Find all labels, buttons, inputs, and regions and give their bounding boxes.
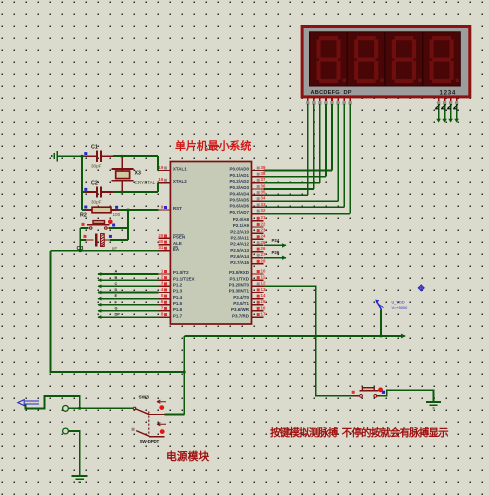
svg-text:28: 28 [261, 258, 266, 263]
svg-text:17: 17 [261, 311, 266, 316]
svg-text:EA: EA [173, 247, 180, 252]
svg-text:R2: R2 [80, 213, 87, 219]
svg-text:P0.3/AD3: P0.3/AD3 [229, 185, 249, 190]
svg-text:单片机最小系统: 单片机最小系统 [175, 138, 251, 152]
svg-text:P3.2/INT0: P3.2/INT0 [229, 283, 250, 288]
svg-text:B: B [115, 275, 118, 280]
svg-text:P2.7/A15: P2.7/A15 [230, 260, 249, 265]
svg-text:P2.4/A12: P2.4/A12 [230, 242, 249, 247]
svg-text:SW-DPDT: SW-DPDT [140, 439, 160, 444]
svg-text:P2.3/A11: P2.3/A11 [230, 235, 249, 240]
svg-text:18: 18 [158, 177, 163, 182]
svg-text:P2.6/A14: P2.6/A14 [230, 254, 249, 259]
svg-text:30pF: 30pF [91, 164, 102, 169]
svg-text:P3.4/T0: P3.4/T0 [233, 295, 249, 300]
svg-text:X3: X3 [135, 171, 141, 177]
svg-text:P3.7/RD: P3.7/RD [232, 313, 250, 318]
svg-text:35: 35 [261, 190, 266, 195]
svg-text:P1.4: P1.4 [173, 295, 183, 300]
svg-text:26: 26 [261, 246, 266, 251]
svg-text:31: 31 [158, 245, 163, 250]
svg-text:30: 30 [158, 239, 163, 244]
svg-text:P0.7/AD7: P0.7/AD7 [229, 210, 249, 215]
svg-text:1234: 1234 [440, 89, 457, 96]
svg-text:XTAL1: XTAL1 [173, 167, 187, 172]
svg-text:23: 23 [261, 228, 266, 233]
svg-text:P1.5: P1.5 [173, 301, 183, 306]
svg-text:P2.2/A10: P2.2/A10 [230, 229, 249, 234]
svg-text:16: 16 [261, 305, 266, 310]
svg-text:P0.2/AD2: P0.2/AD2 [229, 179, 249, 184]
svg-text:33: 33 [261, 202, 266, 207]
svg-text:C1: C1 [91, 144, 98, 150]
svg-text:P2.1/A9: P2.1/A9 [233, 223, 250, 228]
svg-text:P0.6/AD6: P0.6/AD6 [229, 204, 249, 209]
svg-text:P1.3: P1.3 [173, 289, 183, 294]
svg-text:11: 11 [261, 275, 266, 280]
svg-text:22: 22 [261, 221, 266, 226]
svg-text:P24: P24 [272, 238, 280, 243]
svg-text:13: 13 [261, 287, 266, 292]
svg-text:G: G [115, 306, 118, 311]
svg-text:P1.7: P1.7 [173, 313, 183, 318]
svg-text:29: 29 [158, 233, 163, 238]
svg-text:37: 37 [261, 177, 266, 182]
svg-text:30pF: 30pF [91, 199, 102, 204]
svg-text:按键模拟测脉搏 不停的按就会有脉搏显示: 按键模拟测脉搏 不停的按就会有脉搏显示 [270, 426, 449, 439]
svg-text:P3.6/WR: P3.6/WR [231, 307, 250, 312]
svg-text:P0.5/AD5: P0.5/AD5 [229, 197, 249, 202]
svg-text:P2.5/A13: P2.5/A13 [230, 248, 249, 253]
svg-text:10: 10 [261, 268, 266, 273]
svg-text:E: E [115, 293, 118, 298]
svg-text:ALE: ALE [173, 241, 182, 246]
svg-text:CRYSTAL: CRYSTAL [135, 180, 156, 185]
svg-text:P1.1/T2EX: P1.1/T2EX [173, 276, 195, 281]
svg-text:P26: P26 [272, 250, 280, 255]
svg-text:34: 34 [261, 196, 266, 201]
svg-text:P0.4/AD4: P0.4/AD4 [229, 191, 249, 196]
svg-text:39: 39 [261, 165, 266, 170]
svg-text:P1.6: P1.6 [173, 307, 183, 312]
svg-text:19: 19 [158, 165, 163, 170]
svg-text:12: 12 [261, 281, 266, 286]
svg-text:100: 100 [113, 212, 121, 217]
svg-text:P3.0/RXD: P3.0/RXD [229, 270, 250, 275]
svg-text:U_VDD: U_VDD [392, 299, 405, 304]
svg-text:电源模块: 电源模块 [166, 449, 209, 463]
svg-text:RST: RST [173, 206, 182, 211]
svg-text:D: D [115, 287, 118, 292]
svg-text:24: 24 [261, 234, 266, 239]
svg-text:PSEN: PSEN [173, 235, 185, 240]
svg-text:V=+5000: V=+5000 [392, 305, 409, 310]
svg-text:21: 21 [261, 215, 266, 220]
svg-text:P1.2: P1.2 [173, 283, 183, 288]
svg-text:A: A [115, 269, 118, 274]
svg-text:P3.1/TXD: P3.1/TXD [229, 276, 249, 281]
svg-text:14: 14 [261, 293, 266, 298]
svg-text:P0.1/AD1: P0.1/AD1 [229, 173, 249, 178]
svg-text:SW3: SW3 [139, 394, 150, 400]
svg-text:P3.5/T1: P3.5/T1 [233, 301, 249, 306]
svg-text:15: 15 [261, 299, 266, 304]
svg-text:P0.0/AD0: P0.0/AD0 [229, 167, 249, 172]
svg-text:ABCDEFG DP: ABCDEFG DP [311, 90, 352, 96]
svg-text:DP: DP [115, 312, 121, 317]
svg-text:XTAL2: XTAL2 [173, 179, 187, 184]
svg-text:32: 32 [261, 208, 266, 213]
svg-text:25: 25 [261, 240, 266, 245]
svg-text:P1.0/T2: P1.0/T2 [173, 270, 189, 275]
svg-text:38: 38 [261, 171, 266, 176]
svg-text:C: C [115, 281, 118, 286]
svg-text:P3.3/INT1: P3.3/INT1 [229, 289, 250, 294]
svg-text:27: 27 [261, 252, 266, 257]
svg-text:P2.0/A8: P2.0/A8 [233, 217, 250, 222]
svg-text:C2: C2 [91, 180, 98, 186]
svg-text:36: 36 [261, 183, 266, 188]
